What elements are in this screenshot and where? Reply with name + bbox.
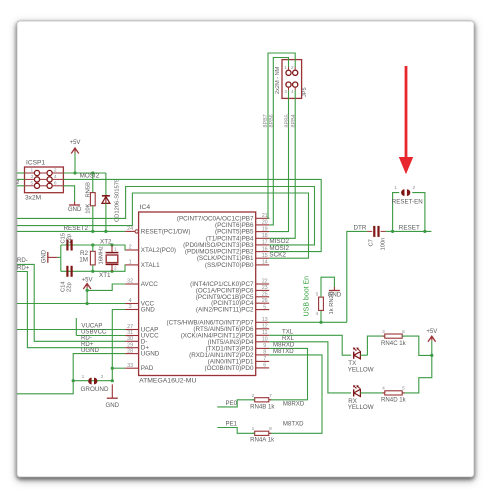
diode D3 CD1206-S01575 bbox=[105, 173, 107, 195]
junction +5V LED rail bbox=[430, 354, 433, 357]
svg-text:2: 2 bbox=[129, 245, 132, 251]
wire VCC net from left edge bbox=[17, 303, 125, 305]
svg-text:USB boot En: USB boot En bbox=[304, 276, 311, 317]
svg-text:10K: 10K bbox=[85, 203, 91, 213]
wire RN4C to +5V junction bbox=[402, 336, 432, 355]
net TXL wire from pin11 bbox=[269, 335, 351, 355]
svg-text:1: 1 bbox=[129, 260, 132, 266]
svg-text:33: 33 bbox=[127, 363, 133, 369]
svg-text:6: 6 bbox=[263, 363, 266, 369]
wire 8PB4: JP5 bottom-right pad down to pin18 bbox=[269, 90, 295, 238]
svg-text:GND: GND bbox=[106, 402, 120, 409]
wire ICSP1 pin2 +5V rail bbox=[63, 172, 106, 174]
wire 8PB6: pin20 loop to JP5 top-left pad bbox=[269, 58, 288, 225]
pin 24 RESET(PC1/DW) bbox=[125, 230, 135, 232]
svg-text:15: 15 bbox=[262, 253, 268, 259]
wire ICSP1 left pin row 1 to edge bbox=[17, 172, 25, 174]
svg-text:YELLOW: YELLOW bbox=[348, 366, 374, 373]
junction RN2B bottom on PD7 row bbox=[319, 321, 322, 324]
svg-text:YELLOW: YELLOW bbox=[348, 404, 374, 411]
svg-text:20: 20 bbox=[262, 220, 268, 226]
pin 10 PD (INT5/AIN3)PD4 bbox=[256, 341, 270, 343]
ground GND above USB boot resistor bbox=[333, 287, 335, 291]
svg-text:UGND: UGND bbox=[81, 347, 100, 354]
svg-text:IC4: IC4 bbox=[140, 204, 151, 211]
svg-text:XT2: XT2 bbox=[100, 238, 112, 245]
svg-text:1M: 1M bbox=[79, 256, 88, 263]
svg-text:DTR: DTR bbox=[354, 225, 367, 232]
svg-text:22p: 22p bbox=[66, 282, 72, 292]
svg-text:6: 6 bbox=[54, 180, 57, 186]
pin 4 VCC bbox=[125, 303, 139, 305]
svg-text:2: 2 bbox=[101, 374, 104, 380]
wire PAD pin33 bbox=[112, 367, 125, 369]
svg-text:CD1206-S01575: CD1206-S01575 bbox=[115, 179, 121, 222]
junction diode anode on RESET2 bbox=[104, 230, 107, 233]
junction +5V VCC bbox=[86, 302, 89, 305]
pin 21 PB (PCINT7/OC0A/OC1C)PB7 bbox=[256, 217, 270, 219]
wire +5V stem to VCC row bbox=[86, 290, 88, 303]
resistor RN4C 1k bbox=[382, 335, 385, 337]
wire GROUND left to edge bbox=[17, 381, 73, 394]
svg-text:24: 24 bbox=[127, 226, 133, 232]
net USBVCC wire bbox=[76, 335, 125, 337]
svg-text:7: 7 bbox=[263, 356, 266, 362]
svg-text:1: 1 bbox=[82, 374, 85, 380]
junction GROUND jumper right bbox=[111, 379, 114, 382]
pin 6 PD (OC0B/INT0)PD0 bbox=[256, 367, 270, 369]
capacitor C7 100n bbox=[367, 230, 372, 232]
svg-text:5: 5 bbox=[30, 180, 33, 186]
svg-text:(OC0B/INT0)PD0: (OC0B/INT0)PD0 bbox=[205, 365, 254, 372]
svg-text:UGND: UGND bbox=[141, 351, 160, 358]
junction RESET-EN left lead bbox=[391, 230, 394, 233]
svg-text:C7: C7 bbox=[369, 239, 375, 246]
svg-text:XT1: XT1 bbox=[99, 272, 111, 279]
svg-text:1: 1 bbox=[252, 426, 255, 432]
svg-text:MOSI2: MOSI2 bbox=[80, 172, 100, 179]
svg-text:3: 3 bbox=[30, 174, 33, 180]
svg-text:10: 10 bbox=[262, 337, 268, 343]
svg-text:RN4B 1k: RN4B 1k bbox=[250, 403, 275, 410]
svg-text:16MHz: 16MHz bbox=[98, 246, 104, 264]
svg-text:M8RXD: M8RXD bbox=[283, 401, 305, 408]
resistor RN5B 10K bbox=[92, 173, 94, 193]
wire DTR net from PD7 corner up bbox=[347, 231, 367, 322]
connector ICSP1 3x2M header bbox=[25, 167, 64, 193]
wire GROUND jumper row bbox=[73, 380, 112, 382]
svg-text:RESET(PC1/DW): RESET(PC1/DW) bbox=[141, 228, 191, 235]
net RD- wire from left edge bbox=[17, 264, 125, 341]
svg-text:4: 4 bbox=[382, 386, 385, 392]
svg-text:4: 4 bbox=[54, 174, 57, 180]
svg-text:GROUND: GROUND bbox=[81, 386, 109, 393]
net RESET wire bbox=[393, 230, 432, 232]
svg-text:17: 17 bbox=[262, 240, 268, 246]
ICSP1 pads row 2 bbox=[34, 177, 39, 182]
svg-text:32: 32 bbox=[127, 279, 133, 285]
pin 29 D+ bbox=[125, 347, 139, 349]
IC IC4 ATMEGA16U2-MU body bbox=[139, 212, 256, 376]
pin 27 UCAP bbox=[125, 329, 139, 331]
pin 14 PB (SS/PCINT0)PB0 bbox=[256, 264, 270, 266]
svg-text:GND: GND bbox=[68, 206, 82, 213]
svg-text:MOSI2: MOSI2 bbox=[269, 245, 289, 252]
wire ICSP1 left pin row 2 to edge bbox=[17, 178, 25, 180]
svg-text:4: 4 bbox=[316, 311, 319, 317]
pin 19 PB (PCINT5)PB5 bbox=[256, 231, 270, 233]
svg-text:11: 11 bbox=[262, 330, 268, 336]
pin 31 UVCC bbox=[125, 335, 139, 337]
svg-text:2x2M - NM: 2x2M - NM bbox=[275, 66, 281, 94]
pin 16 PB (PDI/MOSI/PCINT2)PB2 bbox=[256, 251, 270, 253]
svg-text:22p: 22p bbox=[66, 234, 72, 244]
LED RX yellow bbox=[353, 389, 355, 396]
svg-text:16: 16 bbox=[262, 246, 268, 252]
connector JP5 2x2M - NM bbox=[282, 60, 302, 99]
junction PAD pin33 bbox=[111, 367, 114, 370]
wire UGND net down to GROUND jumper bbox=[73, 354, 125, 381]
pin 17 PB (PD0/MISO/PCINT3)PB3 bbox=[256, 244, 270, 246]
ICSP1 pads row 1 bbox=[34, 170, 39, 175]
pin 30 D- bbox=[125, 340, 139, 342]
svg-text:2: 2 bbox=[291, 65, 294, 70]
pin 18 PB (T1/PCINT4)PB4 bbox=[256, 237, 270, 239]
svg-text:RD-: RD- bbox=[17, 257, 28, 264]
svg-text:3: 3 bbox=[129, 304, 132, 310]
resistor RN4A 1k bbox=[252, 432, 255, 434]
net M8TXD wire from pin8 down to RN4A bbox=[269, 355, 322, 433]
wire ICSP1 left pin row 3 to edge bbox=[17, 185, 25, 187]
pin 12 PD (RTS/AIN5/INT6)PD6 bbox=[256, 328, 270, 330]
pin 26 PC (PCINT10)PC4 bbox=[256, 302, 270, 304]
pin 2 XTAL2(PC0) bbox=[125, 249, 139, 251]
capacitor C15 22p bbox=[66, 240, 68, 251]
pin 11 PD (XCK/AIN4/PCINT12)PD5 bbox=[256, 334, 270, 336]
svg-text:PE1: PE1 bbox=[226, 421, 238, 428]
pin 3 GND bbox=[125, 309, 139, 311]
svg-text:3: 3 bbox=[284, 89, 287, 94]
jumper GROUND solder jumper bbox=[88, 378, 91, 385]
svg-text:AVCC: AVCC bbox=[141, 281, 158, 288]
red annotation arrow bbox=[405, 66, 408, 158]
svg-text:8PB5: 8PB5 bbox=[284, 114, 290, 127]
ground GND below jumper bbox=[111, 384, 113, 398]
svg-text:GND: GND bbox=[141, 307, 155, 314]
svg-text:3x2M: 3x2M bbox=[25, 195, 41, 202]
svg-text:7: 7 bbox=[269, 393, 272, 399]
svg-text:1: 1 bbox=[114, 246, 117, 252]
svg-text:8: 8 bbox=[263, 350, 266, 356]
svg-text:21: 21 bbox=[262, 213, 268, 219]
svg-text:8: 8 bbox=[269, 426, 272, 432]
net PE1 stub wire bbox=[217, 428, 254, 434]
net M8RXD wire from pin9 down to RN4B bbox=[269, 348, 308, 399]
svg-text:+5V: +5V bbox=[70, 140, 81, 146]
svg-text:28: 28 bbox=[127, 348, 133, 354]
svg-text:8PB4: 8PB4 bbox=[291, 114, 297, 127]
LED TX yellow bbox=[353, 352, 355, 359]
net PE0 stub wire bbox=[217, 400, 254, 407]
svg-text:JP5: JP5 bbox=[302, 87, 308, 97]
svg-text:(SS/PCINT0)PB0: (SS/PCINT0)PB0 bbox=[205, 262, 254, 269]
svg-text:30: 30 bbox=[127, 336, 133, 342]
pin 7 PD (AIN0/INT1)PD1 bbox=[256, 360, 270, 362]
svg-text:RESET-EN: RESET-EN bbox=[392, 198, 423, 205]
svg-text:12: 12 bbox=[262, 324, 268, 330]
svg-text:14: 14 bbox=[262, 260, 268, 266]
net VUCAP wire to left edge bbox=[17, 329, 125, 331]
svg-text:SCK2: SCK2 bbox=[269, 252, 286, 259]
jumper RESET-EN solder jumper with leads bbox=[393, 193, 400, 232]
pin 5 PC (AIN2/PCINT11)PC2 bbox=[256, 309, 270, 311]
capacitor C14 22p bbox=[66, 266, 68, 277]
pin 13 PD (CTS/HWB/AIN6/TO/INT7)PD7 bbox=[256, 321, 270, 323]
svg-text:1k RN2B: 1k RN2B bbox=[329, 291, 335, 314]
svg-text:9: 9 bbox=[263, 343, 266, 349]
resistor RN4B 1k bbox=[252, 399, 255, 401]
wire 8PB7: pin21 loop over JP5 to top-right pad bbox=[268, 53, 295, 218]
svg-text:1: 1 bbox=[30, 168, 33, 174]
junction GROUND jumper left bbox=[72, 379, 75, 382]
svg-text:XTAL1: XTAL1 bbox=[141, 262, 160, 269]
svg-text:25: 25 bbox=[262, 292, 268, 298]
svg-text:ICSP1: ICSP1 bbox=[26, 160, 45, 167]
junction +5V AVCC bbox=[86, 289, 89, 292]
pin 1 XTAL1 bbox=[125, 264, 139, 266]
net RXL wire from pin10 bbox=[269, 342, 351, 393]
pin 33 PAD bbox=[125, 367, 139, 369]
svg-text:RN4A 1k: RN4A 1k bbox=[250, 437, 275, 444]
svg-text:M8TXD: M8TXD bbox=[273, 348, 294, 355]
pin 28 UGND bbox=[125, 353, 139, 355]
resistor RN2B 1k pull-up to GND bbox=[320, 310, 322, 322]
wire ICSP1 pin6 to GND bbox=[63, 186, 74, 202]
svg-text:2: 2 bbox=[412, 185, 415, 191]
pin 25 PC (PCINT9/OC1B)PC5 bbox=[256, 296, 270, 298]
pin 32 AVCC bbox=[125, 283, 139, 285]
svg-text:6: 6 bbox=[402, 329, 405, 335]
wire PD7 row net DTR bbox=[269, 321, 347, 323]
net SCK2 wire: pin15 loop to left edge bbox=[17, 193, 309, 258]
svg-text:ATMEGA16U2-MU: ATMEGA16U2-MU bbox=[139, 378, 196, 385]
wire XTAL1 net bottom row bbox=[61, 265, 125, 271]
pin 20 PB (PCINT6)PB6 bbox=[256, 224, 270, 226]
wire XTAL2 net top row bbox=[61, 245, 125, 250]
svg-text:RD+: RD+ bbox=[17, 265, 30, 272]
svg-text:RN4D 1k: RN4D 1k bbox=[381, 397, 407, 404]
junction RESET-EN right lead bbox=[423, 230, 426, 233]
pin 23 PC (OC1A/PCINT8)PC6 bbox=[256, 289, 270, 291]
svg-text:23: 23 bbox=[262, 285, 268, 291]
wire AVCC net bbox=[87, 284, 125, 290]
resistor RN4D 1k bbox=[382, 392, 385, 394]
svg-text:100n: 100n bbox=[381, 238, 387, 251]
net MISO2 wire: pin17 loop to left edge bbox=[17, 187, 315, 245]
wire GND pin3 down to pad junction bbox=[112, 310, 125, 381]
svg-text:PE0: PE0 bbox=[226, 400, 238, 407]
net RD+ wire from left edge bbox=[17, 272, 125, 348]
svg-text:2: 2 bbox=[54, 168, 57, 174]
svg-text:3: 3 bbox=[382, 329, 385, 335]
svg-text:RN4C 1k: RN4C 1k bbox=[381, 340, 407, 347]
svg-text:8PB6: 8PB6 bbox=[269, 114, 275, 127]
svg-text:22: 22 bbox=[262, 279, 268, 285]
svg-text:5: 5 bbox=[316, 291, 319, 297]
svg-text:(AIN2/PCINT11)PC2: (AIN2/PCINT11)PC2 bbox=[196, 307, 254, 314]
svg-text:2: 2 bbox=[114, 265, 117, 271]
net MOSI2 wire: pin16 loop to ICSP1 pin4 bbox=[63, 179, 321, 251]
pin 8 PD (RXD1/AIN1/INT2)PD2 bbox=[256, 354, 270, 356]
wire 8PB5: JP5 bottom-left pad down to pin19 bbox=[269, 90, 288, 231]
svg-text:26: 26 bbox=[262, 298, 268, 304]
svg-text:XTAL2(PC0): XTAL2(PC0) bbox=[141, 247, 176, 254]
crystal XT2 16MHz bbox=[110, 243, 113, 246]
pin 9 PD (TXD1/INT3)PD3 bbox=[256, 347, 270, 349]
svg-text:1: 1 bbox=[394, 185, 397, 191]
svg-text:RESET2: RESET2 bbox=[64, 225, 89, 232]
svg-text:2: 2 bbox=[252, 393, 255, 399]
svg-text:+5V: +5V bbox=[426, 329, 437, 335]
svg-text:RESET: RESET bbox=[399, 225, 420, 232]
svg-text:19: 19 bbox=[262, 226, 268, 232]
svg-text:5: 5 bbox=[402, 386, 405, 392]
svg-text:4: 4 bbox=[291, 89, 294, 94]
wire TX LED to RN4C bbox=[367, 336, 384, 355]
ground GND below ICSP1 bbox=[74, 202, 76, 206]
ICSP1 pads row 3 bbox=[34, 183, 39, 188]
svg-text:M8TXD: M8TXD bbox=[283, 420, 304, 427]
svg-text:18: 18 bbox=[262, 233, 268, 239]
ground GND at crystal (rotated) bbox=[48, 256, 58, 258]
svg-text:2: 2 bbox=[16, 180, 19, 186]
wire +5V junction down to RN4D bbox=[402, 355, 432, 393]
junction RN5B top bbox=[91, 171, 94, 174]
svg-text:5: 5 bbox=[263, 304, 266, 310]
svg-text:13: 13 bbox=[262, 317, 268, 323]
resistor R2 1M bbox=[91, 243, 94, 246]
svg-text:1: 1 bbox=[284, 65, 287, 70]
net RESET2 wire from left edge to IC pin 24 bbox=[17, 230, 125, 232]
junction +5V / pin2 row bbox=[73, 171, 76, 174]
svg-text:GND: GND bbox=[42, 249, 48, 263]
wire caps to GND tee bbox=[60, 245, 62, 271]
svg-text:PAD: PAD bbox=[141, 365, 154, 372]
svg-text:RN5B: RN5B bbox=[85, 182, 91, 198]
pin 22 PC (INT4/ICP1/CLK0)PC7 bbox=[256, 283, 270, 285]
junction RN5B bottom on RESET2 bbox=[91, 230, 94, 233]
pin 15 PB (SCLK/PCINT1)PB1 bbox=[256, 257, 270, 259]
